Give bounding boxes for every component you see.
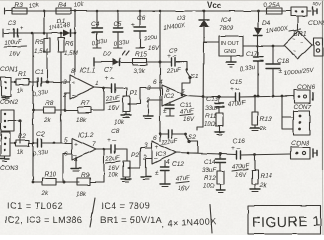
capacitor C14 (202, 154, 225, 174)
wire x44 rail to y33 (43, 11, 45, 33)
resistor R7 (55, 100, 104, 124)
diode D3 (162, 11, 209, 42)
capacitor C9 (160, 48, 182, 75)
capacitor C1 (32, 69, 70, 98)
capacitor C7 (104, 67, 127, 112)
resistor R3 (12, 2, 40, 14)
diode D1 (48, 18, 71, 37)
wire output2 riser (96, 148, 111, 182)
wire P2 wiper to IC3 (135, 148, 152, 168)
connector CON8 (291, 140, 317, 159)
wire IC3 output (176, 152, 236, 156)
connector CON1 (0, 66, 18, 96)
capacitor C15 (227, 79, 294, 108)
wire IC2 output (181, 94, 203, 97)
ground CON1 (2, 96, 9, 100)
wire IC2 pin2 ground (143, 100, 162, 119)
regulator U IC4 7809 (204, 17, 243, 56)
connector CON7 (293, 104, 311, 135)
op-amp U IC1.1 (62, 67, 99, 99)
capacitor C17 (239, 46, 263, 96)
wire mid rail y33 (3, 29, 76, 37)
resistor R13 (250, 95, 272, 132)
resistor R10 (33, 171, 79, 197)
node pin3 bias (46, 81, 49, 84)
op-amp U IC1.2 (64, 132, 96, 164)
resistor R6 (58, 33, 79, 143)
wire P1 wiper to IC2 (135, 88, 162, 104)
resistor R4 (56, 1, 85, 14)
capacitor C16 (231, 138, 291, 179)
resistor R14 (250, 153, 272, 191)
connector CON3 (0, 132, 18, 172)
capacitor C18 (266, 46, 315, 96)
potentiometer P2 (123, 149, 139, 177)
wire speaker1 line (203, 96, 235, 99)
node C17 C18 ground to line (257, 95, 284, 98)
switch S1 (175, 62, 199, 80)
diode D2 (103, 51, 129, 66)
capacitor C2 (32, 131, 72, 158)
resistor R11 (204, 113, 224, 135)
figure box (248, 206, 321, 235)
capacitor C4 (91, 11, 108, 48)
connector CON6 (294, 84, 315, 103)
resistor R5 (34, 33, 50, 82)
resistor R9 (76, 172, 104, 198)
wire S2 to output (188, 142, 198, 154)
resistor R12 (203, 171, 225, 193)
text parts list mid (100, 201, 217, 229)
node rail-R4 (43, 10, 46, 13)
resistor R8 (33, 100, 55, 124)
op-amp U IC3 (142, 135, 176, 166)
ground IC4 (226, 56, 236, 67)
ground P1 (114, 112, 131, 126)
capacitor C6 (131, 11, 160, 52)
capacitor C8 (104, 128, 127, 172)
wire rail x203 (197, 42, 204, 130)
wire y46 regulator to bridge (243, 45, 284, 48)
wire rail junction dots (74, 10, 260, 13)
bridge BR1 (284, 16, 312, 59)
capacitor C5 (113, 11, 130, 48)
wire output riser (94, 87, 111, 110)
wire power x160 (159, 11, 162, 141)
resistor R2 (14, 133, 37, 156)
connector plug mains (313, 1, 322, 15)
capacitor C11 bypass (163, 102, 195, 123)
resistor R15 (133, 51, 147, 75)
connector CON AC in (312, 38, 323, 56)
wire CON2 down (20, 121, 22, 143)
capacitor C3 (3, 20, 27, 58)
connector CON5 label (308, 20, 324, 27)
wire S1 to output (182, 78, 191, 96)
connector CON2 (0, 99, 22, 131)
wire pin4 ground (71, 157, 81, 171)
wire to CON7 (282, 96, 293, 129)
scan edge right (322, 0, 324, 235)
wire Vcc rail top (5, 8, 258, 14)
wire y62 supply to preamp (94, 58, 160, 66)
wire pin2 feedback (64, 93, 70, 111)
divider 2 (210, 204, 212, 233)
diode D4 (254, 11, 289, 46)
switch S3 power (291, 7, 311, 16)
text parts list left (5, 201, 82, 225)
scan edge top (0, 0, 324, 2)
capacitor C10 boost (160, 130, 179, 146)
net Vcc label (207, 1, 222, 10)
ground P2 (108, 172, 131, 182)
divider 1 (90, 198, 95, 227)
wire x75 rail down to opamp pin8 (74, 11, 76, 75)
op-amp U IC2 (145, 79, 186, 106)
capacitor C12 bypass (155, 161, 191, 192)
switch S2 (172, 133, 196, 143)
wire bias x33 (32, 33, 35, 183)
fuse F1 0.25A (258, 2, 291, 14)
resistor R1 (14, 71, 37, 95)
capacitor C13 (205, 96, 224, 113)
wire IC3 pin2 ground (141, 158, 152, 180)
potentiometer P1 (123, 88, 138, 112)
wire pin6 feedback (63, 154, 73, 184)
